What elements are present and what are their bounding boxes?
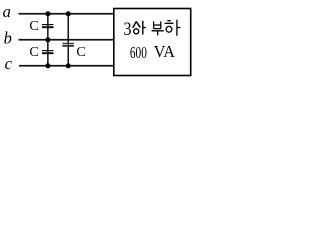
svg-text:b: b xyxy=(4,29,12,48)
svg-text:VA: VA xyxy=(154,42,175,61)
svg-text:600: 600 xyxy=(130,43,147,62)
junction dot c-v2 xyxy=(66,63,71,68)
svg-text:c: c xyxy=(5,54,13,73)
junction dot c-v1 xyxy=(45,63,50,68)
capacitor C3 plates (on v2, between a and c) xyxy=(62,43,74,44)
junction dot a-v2 xyxy=(66,11,71,16)
hangul 부 (b+u) xyxy=(152,21,164,35)
svg-text:a: a xyxy=(3,2,11,21)
capacitor C1 plates (between a and b on v1) xyxy=(42,24,54,25)
capacitor C2 plates (between b and c on v1) xyxy=(42,50,54,51)
wire vertical v1 (a to c) xyxy=(47,13,49,66)
svg-text:C: C xyxy=(29,19,38,34)
wire vertical v2 (a to c) xyxy=(68,13,70,66)
background xyxy=(0,0,204,83)
hangul 하 (h+a) xyxy=(165,20,181,36)
wire phase a xyxy=(19,13,114,15)
junction dot a-v1 xyxy=(45,11,50,16)
hangul 상 (s+a+ng) xyxy=(132,21,146,35)
junction dot b-v1 xyxy=(45,37,50,42)
wire phase c xyxy=(19,65,114,67)
load box xyxy=(114,9,191,76)
wire phase b xyxy=(19,39,114,41)
svg-text:C: C xyxy=(29,45,38,60)
svg-text:C: C xyxy=(76,45,85,60)
svg-text:3: 3 xyxy=(124,20,132,40)
load label line 1: 3상 부하 xyxy=(124,20,181,41)
